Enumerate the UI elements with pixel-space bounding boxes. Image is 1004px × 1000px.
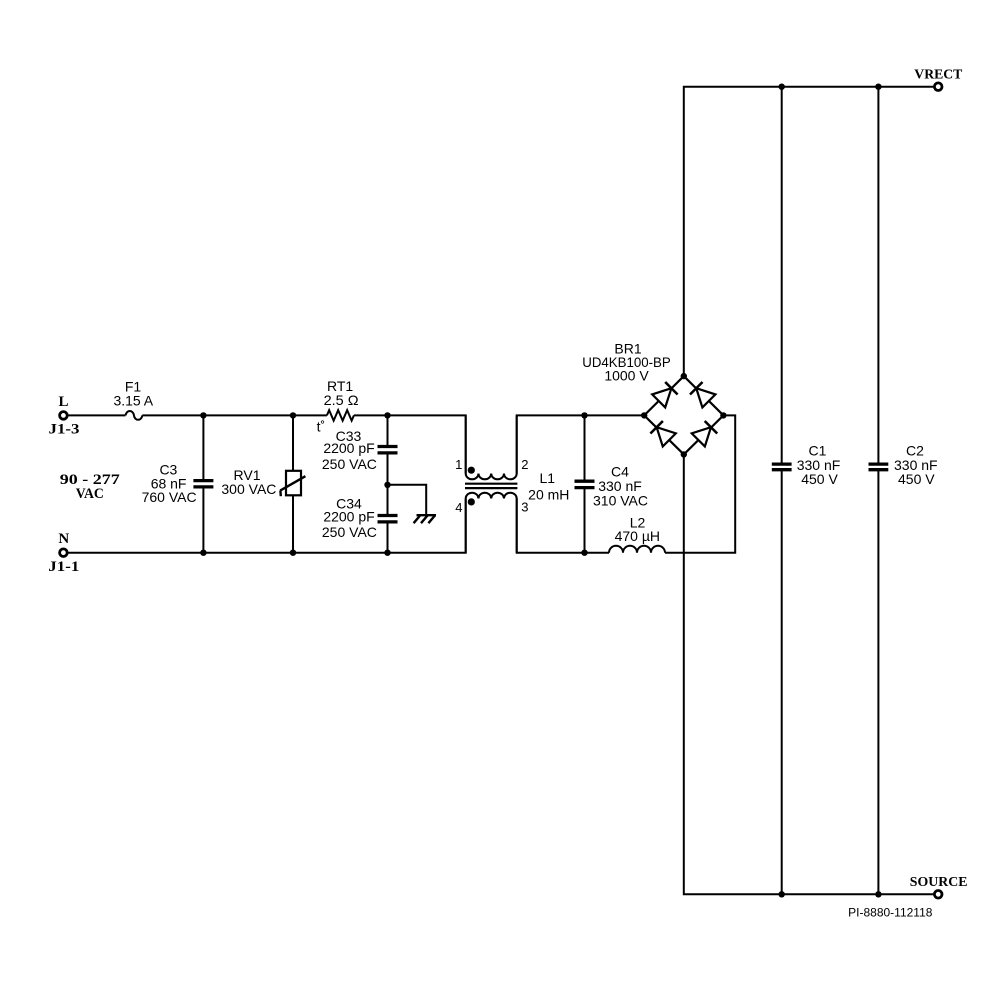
svg-text:330 nF: 330 nF [598,478,642,494]
svg-text:SOURCE: SOURCE [910,875,968,890]
svg-text:300 VAC: 300 VAC [221,481,276,497]
svg-text:J1-3: J1-3 [49,421,80,437]
fuse F1 [126,411,143,420]
svg-text:t˚: t˚ [317,419,326,435]
diode D2 top-right [690,382,715,407]
capacitor C1 [772,464,792,470]
node bridge plus [681,373,687,379]
terminal SOURCE [934,891,942,899]
wire C34 branch [387,485,389,553]
svg-text:470 µH: 470 µH [615,528,660,544]
node N-RV1 [290,550,296,556]
wire L to RT1 [142,414,327,416]
capacitor C2 [869,464,889,470]
svg-text:760 VAC: 760 VAC [142,489,197,505]
node rail C1 top [779,84,785,90]
node L-RV1 [290,412,296,418]
wire L2 to bridge AC2 [665,415,735,552]
svg-text:VRECT: VRECT [914,68,963,83]
wire C3 branch [202,415,204,552]
node N-C34 [384,550,390,556]
svg-text:L1: L1 [540,470,556,486]
node bridge AC2 [720,412,726,418]
svg-text:L: L [58,394,68,410]
svg-text:3.15 A: 3.15 A [113,393,153,409]
node rail C1 bottom [779,891,785,897]
wire ground stub [388,485,427,515]
ground chassis [414,515,436,523]
svg-text:2200 pF: 2200 pF [323,508,374,524]
wire C2 branch [877,87,879,895]
node bridge minus [681,451,687,457]
svg-text:20 mH: 20 mH [528,486,569,502]
capacitor C3 [193,481,213,487]
diode D4 bottom-right [692,421,717,446]
svg-text:450 V: 450 V [801,471,838,487]
wire L1 pin2 to bridge [517,415,645,473]
svg-text:450 V: 450 V [898,471,935,487]
wire bridge top to VRECT rail [684,87,934,376]
inductor L2 [609,546,665,553]
node C4 bottom [581,550,587,556]
svg-text:J1-1: J1-1 [48,559,79,575]
wire C33 branch [387,415,389,484]
capacitor C34 [378,516,398,522]
wire N input [68,499,466,553]
phase dot L1 pin1 [468,467,475,474]
varistor RV1 [280,471,305,496]
node bridge AC1 [641,412,647,418]
node C4 top [581,412,587,418]
node N-C3 [200,550,206,556]
wire bridge bottom to SOURCE rail [684,454,934,894]
svg-text:N: N [58,531,69,547]
thermistor RT1 [327,410,354,420]
node C33-C34 mid [384,482,390,488]
node L-C3 [200,412,206,418]
node rail C2 top [875,84,881,90]
svg-text:310 VAC: 310 VAC [593,493,648,509]
node RT1-C33 [384,412,390,418]
svg-text:2.5 Ω: 2.5 Ω [324,392,359,408]
svg-text:1000 V: 1000 V [604,368,649,384]
wire RT1 to L1 pin1 [354,415,466,473]
diode D1 top-left [652,382,677,407]
capacitor C33 [378,447,398,453]
bridge BR1 diamond [644,376,723,454]
svg-text:2: 2 [521,457,528,472]
transformer L1 winding top [466,415,517,479]
svg-text:250 VAC: 250 VAC [322,524,377,540]
node rail C2 bottom [875,891,881,897]
terminal L J1-3 [60,412,68,420]
transformer L1 winding bottom [466,493,517,553]
wire C1 branch [781,87,783,895]
capacitor C4 [575,481,595,487]
terminal VRECT [934,83,942,91]
svg-text:2200 pF: 2200 pF [323,440,374,456]
phase dot L1 pin4 [468,498,475,505]
wire L input [68,414,126,416]
svg-text:1: 1 [455,457,462,472]
terminal N J1-1 [60,549,68,557]
transformer L1 core [465,484,517,488]
svg-text:VAC: VAC [76,486,104,502]
wire L1 pin3 to L2 [517,499,609,553]
svg-text:4: 4 [455,500,462,515]
svg-text:250 VAC: 250 VAC [322,456,377,472]
wire RV1 branch [292,415,294,552]
wire C4 branch [584,415,586,552]
diode D3 bottom-left [650,421,675,446]
svg-text:PI-8880-112118: PI-8880-112118 [848,906,933,920]
